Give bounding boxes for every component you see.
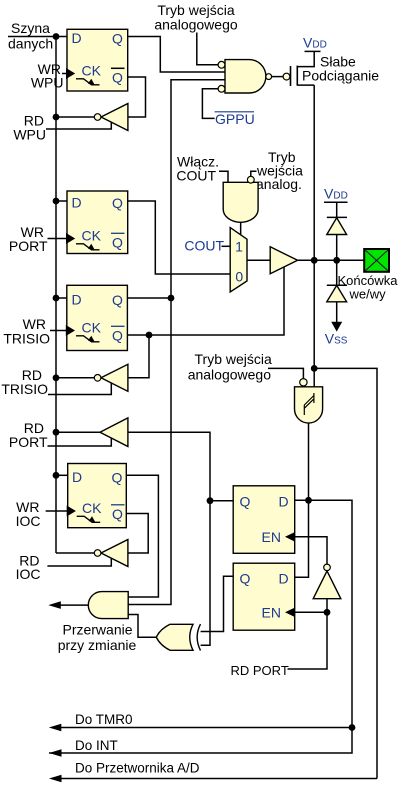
- label RD IOC: [16, 553, 41, 583]
- svg-text:Q: Q: [112, 70, 123, 86]
- svg-text:0: 0: [235, 269, 243, 285]
- label Slabe Podciaganie: [302, 54, 379, 84]
- svg-text:CK: CK: [82, 228, 102, 244]
- svg-text:Q: Q: [112, 195, 123, 211]
- wire RD IOC out to bus: [56, 552, 94, 554]
- node Szyna danych: [8, 20, 53, 52]
- flip-flop TRISIO latch: [66, 285, 128, 350]
- wire L1 EN to inverter: [295, 537, 327, 564]
- svg-text:Podciąganie: Podciąganie: [302, 68, 379, 84]
- svg-text:Q: Q: [240, 571, 251, 587]
- svg-text:RD PORT: RD PORT: [231, 663, 289, 678]
- label RD PORT left: [9, 420, 48, 450]
- wire latch D node to TMR0/INT tap: [49, 500, 352, 753]
- wire pin to AD converter: [314, 368, 377, 778]
- svg-text:EN: EN: [262, 529, 281, 545]
- svg-text:Q: Q: [112, 506, 123, 522]
- wire analog mode to NAND bubble: [197, 33, 219, 65]
- node junction dot pin-analog: [311, 365, 318, 372]
- wire buffer out to pad: [298, 259, 365, 261]
- svg-text:Q: Q: [112, 469, 123, 485]
- wire Q4 to AND gate: [126, 475, 158, 597]
- svg-text:Do Przetwornika A/D: Do Przetwornika A/D: [75, 761, 200, 776]
- svg-text:D: D: [279, 571, 289, 587]
- wire RD PORT buffer input from latch Q: [128, 432, 210, 645]
- wire pin net vertical: [313, 85, 315, 387]
- svg-text:przy zmianie: przy zmianie: [58, 637, 137, 653]
- wire Q4bar to RD IOC buffer: [126, 514, 148, 554]
- wire Q1 to NAND input: [128, 37, 225, 73]
- wire XOR out to AND: [128, 615, 156, 638]
- node junction dot bus-D2: [53, 198, 60, 205]
- svg-text:IOC: IOC: [16, 513, 41, 529]
- node junction dot bus-RDWPU: [53, 114, 60, 121]
- wire RD TRISIO enable: [48, 383, 111, 394]
- wire WR TRISIO to CK: [50, 330, 67, 332]
- svg-text:we/wy: we/wy: [349, 287, 387, 302]
- svg-text:Q: Q: [112, 31, 123, 47]
- buffer RD IOC: [94, 540, 128, 567]
- svg-text:danych: danych: [8, 36, 53, 52]
- wire mux out to buffer: [247, 259, 270, 261]
- svg-text:PORT: PORT: [9, 238, 48, 254]
- wire RD TRISIO out to bus: [56, 377, 94, 379]
- svg-text:COUT: COUT: [176, 168, 216, 184]
- wire bus to D2: [56, 200, 67, 202]
- wire VDD bar to diode: [324, 202, 348, 217]
- wire GPPU to NAND: [202, 89, 218, 119]
- label Tryb wejscia analogowego middle: [188, 351, 272, 383]
- inverter RD PORT: [313, 564, 341, 599]
- diode clamp to VSS: [327, 260, 347, 322]
- svg-text:analogowego: analogowego: [188, 367, 272, 383]
- wire Q1bar to RD WPU buffer: [128, 77, 146, 117]
- wire schmitt out to latch D: [308, 423, 310, 500]
- svg-text:D: D: [72, 30, 82, 46]
- node junction dot bus-D1: [53, 33, 60, 40]
- svg-text:analog.: analog.: [256, 176, 302, 192]
- wire L2 Q to XOR: [201, 576, 234, 631]
- wire RD IOC enable: [47, 559, 111, 567]
- buffer output driver: [270, 247, 297, 274]
- node junction dot bus-D3: [53, 295, 60, 302]
- node junction dot bus-RDPORT: [53, 429, 60, 436]
- svg-text:D: D: [72, 292, 82, 308]
- wire Q3 to TRISIO net: [127, 297, 171, 299]
- wire AND output arrow: [58, 604, 88, 606]
- buffer RD TRISIO: [94, 364, 128, 391]
- wire Q3bar to buffer enable: [127, 267, 284, 335]
- flip-flop PORT latch: [66, 191, 128, 254]
- wire Q2 to mux 0 input: [128, 201, 231, 274]
- label WR WPU: [31, 61, 64, 91]
- label RD WPU: [13, 113, 46, 143]
- latch input L1: [233, 486, 295, 554]
- svg-text:TRISIO: TRISIO: [3, 331, 50, 347]
- svg-text:COUT: COUT: [184, 238, 224, 254]
- wire TRISIO Q net: [128, 80, 225, 605]
- node junction dot latch D: [305, 497, 312, 504]
- buffer RD WPU: [94, 104, 128, 131]
- label GPPU: [215, 111, 255, 127]
- wire data bus vertical: [55, 37, 57, 554]
- label Tryb wejscia analogowego top: [154, 2, 238, 32]
- wire RD WPU enable: [46, 123, 111, 130]
- wire bus to D3: [56, 297, 67, 299]
- wire EN2: [295, 611, 327, 613]
- svg-text:PORT: PORT: [9, 434, 48, 450]
- buffer RD PORT: [100, 418, 128, 447]
- node junction dot bus-RDTRISIO: [53, 374, 60, 381]
- label Przerwanie przy zmianie: [58, 622, 137, 654]
- wire RD PORT out to bus: [56, 431, 100, 433]
- wire szyna to D of R1: [8, 36, 67, 38]
- node junction dot buffer out: [311, 257, 318, 264]
- node junction dot diode branch: [333, 257, 340, 264]
- svg-text:Q: Q: [240, 494, 251, 510]
- latch read L2: [233, 563, 295, 630]
- label Wlacz COUT: [176, 154, 219, 184]
- wire AND out to mux select: [240, 222, 242, 235]
- node junction dot TMR0 tap: [349, 724, 356, 731]
- svg-text:GPPU: GPPU: [215, 111, 255, 127]
- wire analog label to schmitt bubble: [268, 368, 303, 379]
- multiplexer: [230, 228, 247, 292]
- wire WR WPU to CK: [62, 73, 67, 75]
- wire RD PORT enable: [48, 438, 112, 446]
- svg-text:D: D: [72, 195, 82, 211]
- svg-text:Do TMR0: Do TMR0: [75, 712, 133, 727]
- wire Do INT arrow head: [49, 749, 62, 757]
- node junction dot Q3bar: [146, 332, 153, 339]
- node junction dot RD PORT EN: [324, 609, 331, 616]
- wire L1 Q to node: [210, 500, 233, 502]
- gate AND COUT enable: [223, 176, 258, 222]
- label Tryb wejscia analog: [256, 149, 303, 192]
- label WR IOC: [16, 499, 41, 529]
- node junction dot bus-D4: [53, 472, 60, 479]
- diode clamp to VDD: [327, 217, 347, 260]
- flip-flop WPU latch: [66, 29, 128, 91]
- svg-text:Tryb wejścia: Tryb wejścia: [195, 351, 272, 367]
- node junction dot TRISIO Q: [168, 295, 175, 302]
- label WR PORT: [9, 224, 48, 254]
- wire RD WPU buffer out to bus: [56, 116, 94, 118]
- wire latch D down to latch2 D: [295, 500, 309, 577]
- transistor weak pull-up PFET: [272, 51, 321, 86]
- svg-text:Szyna: Szyna: [11, 20, 50, 36]
- wire Wlacz COUT to AND gate: [219, 171, 228, 182]
- wire inverter input: [288, 599, 328, 669]
- svg-text:TRISIO: TRISIO: [1, 381, 48, 397]
- svg-text:Do INT: Do INT: [75, 738, 118, 753]
- svg-text:analogowego: analogowego: [154, 16, 238, 32]
- label RD TRISIO: [1, 367, 48, 397]
- wire analog to bubble of COUT AND: [251, 171, 257, 176]
- wire WR IOC to CK: [46, 510, 68, 512]
- svg-text:Q: Q: [112, 328, 123, 344]
- gate AND interrupt: [88, 592, 128, 619]
- wire COUT to mux: [222, 245, 231, 247]
- node I/O pad: [364, 249, 389, 272]
- svg-text:EN: EN: [262, 605, 281, 621]
- svg-text:IOC: IOC: [16, 566, 41, 582]
- svg-text:CK: CK: [82, 63, 102, 79]
- svg-text:CK: CK: [82, 500, 102, 516]
- node VSS arrow: [331, 322, 342, 332]
- wire Do AD arrow: [58, 778, 377, 780]
- svg-text:D: D: [72, 469, 82, 485]
- node junction dot latch1 Q: [207, 497, 214, 504]
- gate schmitt input buffer: [295, 379, 323, 423]
- gate XOR: [156, 624, 200, 650]
- svg-text:Q: Q: [112, 292, 123, 308]
- wire Q3bar down to RD TRISIO buffer: [128, 335, 149, 378]
- flip-flop IOC latch: [67, 464, 127, 528]
- svg-text:WPU: WPU: [13, 127, 46, 143]
- gate NAND pull-up enable: [218, 60, 272, 93]
- wire bus to D4: [56, 474, 68, 476]
- svg-text:WPU: WPU: [31, 75, 64, 91]
- label Koncowka we/wy: [338, 273, 399, 302]
- wire WR PORT to CK: [48, 238, 68, 240]
- label WR TRISIO: [3, 316, 50, 347]
- svg-text:CK: CK: [82, 320, 102, 336]
- wire Do TMR0 arrow: [58, 727, 352, 729]
- svg-text:1: 1: [235, 239, 243, 255]
- svg-text:D: D: [279, 494, 289, 510]
- svg-text:Przerwanie: Przerwanie: [62, 622, 132, 638]
- svg-text:Q: Q: [112, 235, 123, 251]
